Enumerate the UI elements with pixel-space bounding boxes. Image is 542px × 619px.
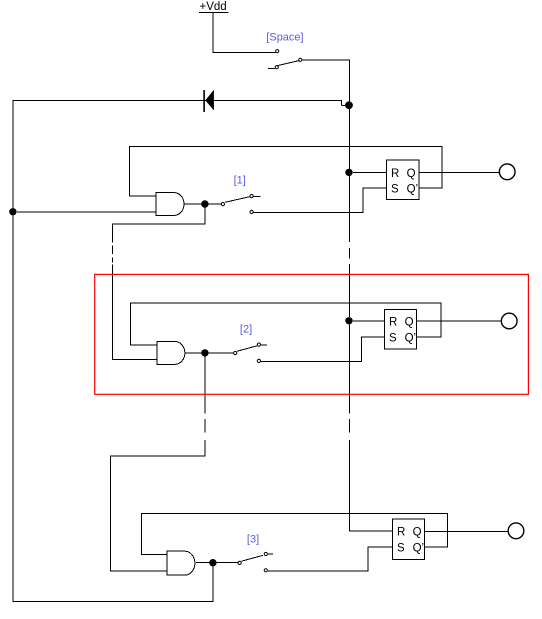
svg-text:[3]: [3] — [247, 534, 259, 546]
svg-text:Q’: Q’ — [405, 333, 417, 345]
svg-text:R: R — [391, 168, 399, 180]
svg-text:S: S — [391, 183, 399, 195]
svg-text:S: S — [397, 543, 405, 555]
svg-text:R: R — [389, 316, 397, 328]
svg-text:[Space]: [Space] — [266, 31, 303, 43]
svg-text:[2]: [2] — [240, 324, 252, 336]
svg-text:Q: Q — [405, 316, 414, 328]
svg-text:[1]: [1] — [234, 175, 246, 187]
svg-text:Q: Q — [413, 527, 422, 539]
svg-text:R: R — [397, 527, 405, 539]
svg-text:+Vdd: +Vdd — [200, 1, 227, 13]
svg-text:Q’: Q’ — [407, 183, 419, 195]
svg-text:Q’: Q’ — [413, 543, 425, 555]
svg-text:S: S — [389, 333, 397, 345]
svg-text:Q: Q — [407, 168, 416, 180]
